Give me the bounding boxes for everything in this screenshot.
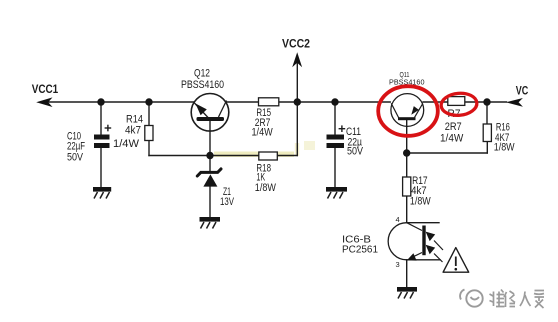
svg-text:4k7: 4k7 <box>125 125 141 137</box>
svg-text:1/4W: 1/4W <box>113 138 140 150</box>
svg-text:50V: 50V <box>67 152 84 164</box>
svg-text:1/4W: 1/4W <box>440 132 464 144</box>
svg-text:VCC1: VCC1 <box>32 82 59 96</box>
svg-text:4: 4 <box>396 215 400 224</box>
svg-text:PBSS4160: PBSS4160 <box>181 79 224 91</box>
svg-text:13V: 13V <box>220 196 235 208</box>
svg-text:Q12: Q12 <box>194 68 210 80</box>
svg-text:2R7: 2R7 <box>445 121 462 133</box>
svg-text:1/4W: 1/4W <box>252 127 274 139</box>
svg-text:3: 3 <box>396 260 400 269</box>
svg-text:VCC2: VCC2 <box>282 36 310 50</box>
svg-text:1/8W: 1/8W <box>410 195 432 207</box>
svg-text:50V: 50V <box>347 146 364 158</box>
svg-text:1/8W: 1/8W <box>494 142 516 154</box>
svg-text:1/8W: 1/8W <box>255 182 277 194</box>
svg-text:VC: VC <box>516 85 529 97</box>
svg-text:PC2561: PC2561 <box>342 245 378 256</box>
